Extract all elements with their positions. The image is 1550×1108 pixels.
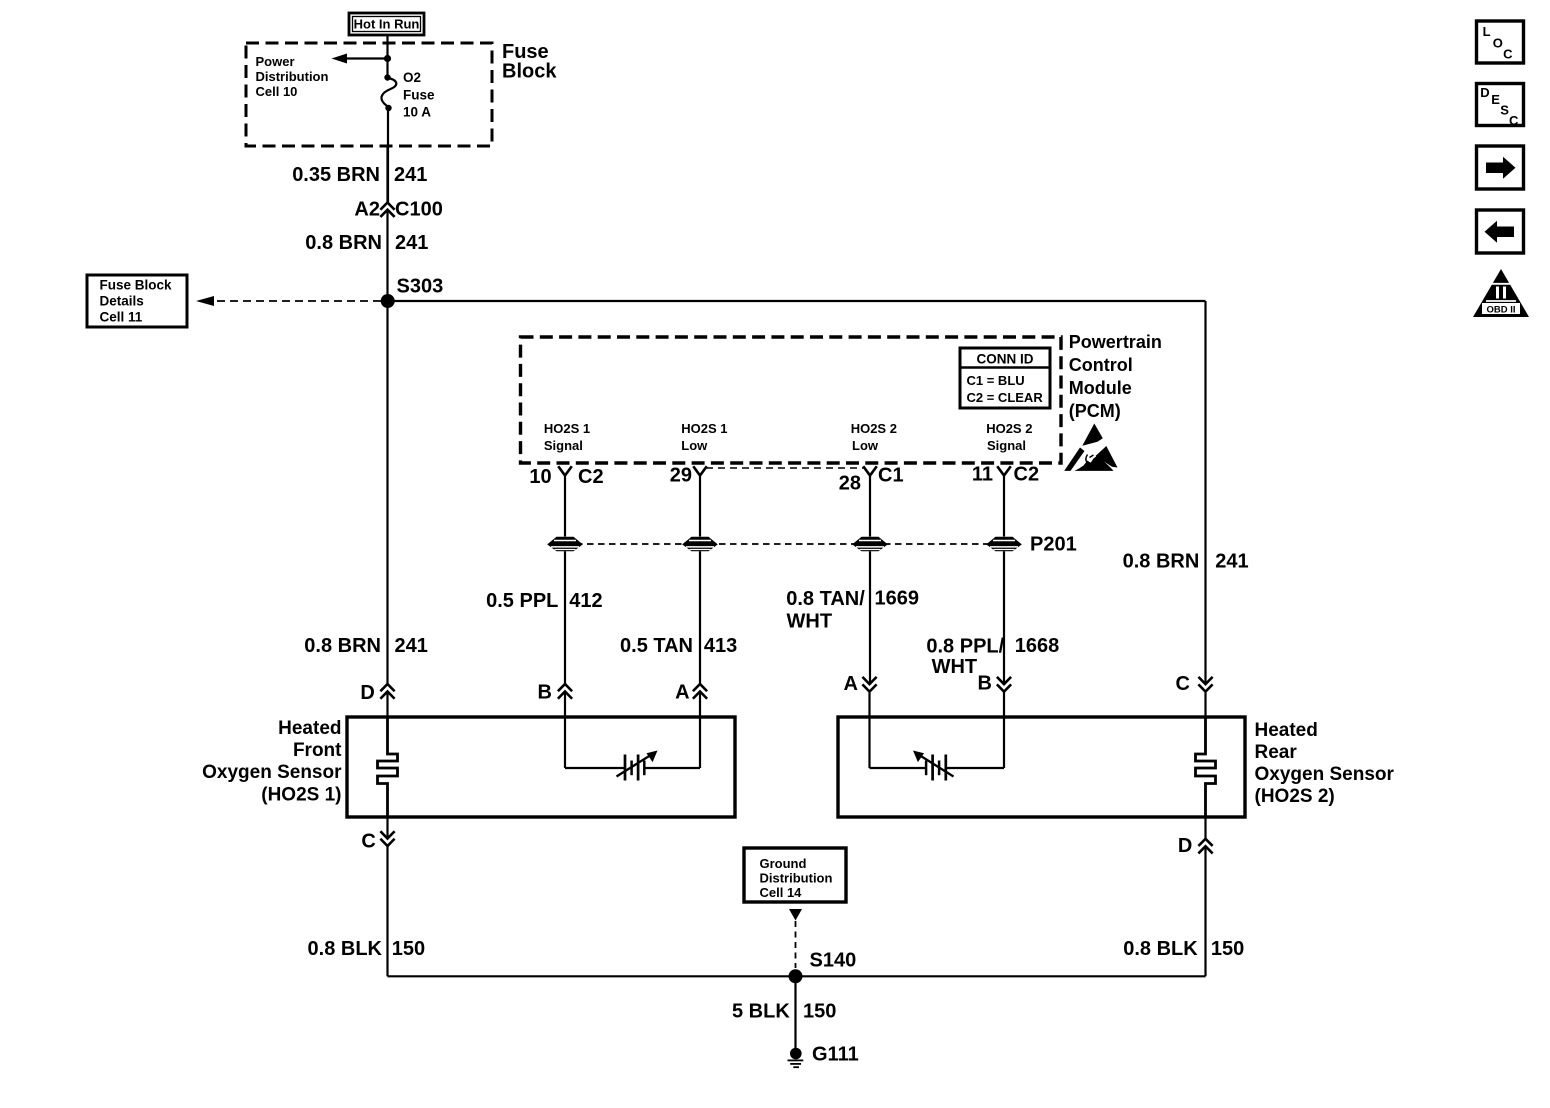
fuse value label O2 Fuse 10 A: [403, 70, 435, 120]
svg-text:Cell 14: Cell 14: [760, 885, 803, 900]
svg-text:Distribution: Distribution: [760, 871, 833, 886]
svg-text:412: 412: [569, 590, 602, 612]
Fuse Block label: [502, 41, 557, 83]
svg-text:D: D: [360, 682, 374, 704]
svg-text:0.8 BRN: 0.8 BRN: [304, 635, 381, 657]
wire P201 to pin B rear: [1003, 551, 1005, 684]
icon back arrow: [1477, 210, 1524, 253]
svg-text:C2: C2: [1014, 464, 1040, 486]
svg-text:Signal: Signal: [987, 438, 1026, 453]
svg-text:28: 28: [839, 473, 861, 495]
arrow to Power Distribution: [332, 54, 388, 64]
svg-text:L: L: [1483, 24, 1491, 39]
dashed line linking P201 connectors: [565, 543, 1004, 545]
svg-text:Oxygen Sensor: Oxygen Sensor: [202, 762, 342, 783]
wire right side down to rear sensor pin C: [1204, 301, 1206, 684]
svg-text:CONN ID: CONN ID: [977, 352, 1034, 367]
front sensor internal wires: [565, 767, 700, 769]
svg-text:Low: Low: [681, 438, 708, 453]
svg-text:Signal: Signal: [544, 438, 583, 453]
wire label 0.5 PPL 412: [486, 590, 603, 612]
svg-text:0.8 BRN: 0.8 BRN: [305, 232, 382, 254]
svg-text:C: C: [361, 831, 375, 853]
svg-text:(HO2S 2): (HO2S 2): [1255, 786, 1335, 807]
rear sensor internal wires: [870, 767, 1005, 769]
inline connector P201 (wire 1669): [852, 537, 888, 552]
pin A terminal rear (down chevrons): [843, 673, 875, 695]
wire pin 10 down to P201: [564, 476, 566, 537]
svg-text:0.8 BLK: 0.8 BLK: [308, 938, 383, 960]
svg-text:G111: G111: [812, 1044, 859, 1066]
svg-text:A: A: [675, 681, 689, 703]
wire B into front box: [564, 692, 566, 769]
svg-text:241: 241: [395, 635, 428, 657]
svg-text:150: 150: [392, 938, 425, 960]
svg-text:S303: S303: [397, 276, 444, 298]
PCM dashed box: [521, 337, 1062, 463]
svg-text:B: B: [977, 672, 991, 694]
pin D terminal rear (up chevrons): [1178, 835, 1212, 857]
fuse Q2 10A: [381, 74, 396, 111]
svg-text:Rear: Rear: [1255, 742, 1298, 763]
svg-text:Power: Power: [256, 54, 295, 69]
splice S140: [789, 950, 857, 984]
wire label 0.8 TAN/WHT 1669: [786, 588, 919, 633]
wire label 0.35 BRN 241: [292, 164, 427, 186]
svg-text:C1 = BLU: C1 = BLU: [967, 373, 1025, 388]
wire P201 to pin A front: [699, 551, 701, 684]
dashed reference arrow from Ground Distribution to S140: [789, 909, 802, 968]
heater element front (resistor): [378, 717, 398, 817]
ground G111: [788, 1044, 859, 1068]
svg-text:C: C: [1176, 673, 1190, 695]
wire label 5 BLK 150: [732, 1000, 836, 1022]
svg-text:Powertrain: Powertrain: [1069, 332, 1162, 352]
svg-text:HO2S 1: HO2S 1: [681, 421, 727, 436]
Fuse Block dashed box: [246, 43, 492, 146]
wire label 0.8 BLK 150 (left): [308, 938, 426, 960]
svg-text:0.8 BLK: 0.8 BLK: [1123, 938, 1198, 960]
svg-text:(HO2S 1): (HO2S 1): [261, 785, 341, 806]
svg-text:S: S: [1500, 103, 1509, 118]
svg-text:C1: C1: [878, 465, 904, 487]
svg-text:Control: Control: [1069, 355, 1133, 375]
connector C100 label: [354, 199, 442, 221]
svg-text:Module: Module: [1069, 378, 1132, 398]
heater element rear (resistor): [1196, 717, 1216, 817]
pin function label HO2S 2 Signal: [986, 421, 1032, 453]
pin 10 C2 terminal: [529, 466, 603, 488]
pin C terminal rear: [1176, 673, 1212, 695]
wire A into front box: [699, 692, 701, 769]
wire pin 11 down to P201: [1003, 476, 1005, 537]
wire label 0.8 BRN 241: [305, 232, 428, 254]
svg-text:413: 413: [704, 635, 737, 657]
node junction at arrow tap: [384, 55, 391, 62]
wire front box pin C down: [386, 817, 388, 839]
pin D terminal front (up chevrons): [360, 682, 393, 704]
svg-text:Block: Block: [502, 61, 557, 83]
svg-text:Heated: Heated: [278, 718, 341, 739]
svg-text:C2 = CLEAR: C2 = CLEAR: [967, 390, 1044, 405]
wire D into front box: [386, 692, 388, 718]
front oxygen sensor cell (variable): [617, 751, 658, 781]
pin function label HO2S 1 Signal: [544, 421, 590, 453]
svg-text:10: 10: [529, 466, 551, 488]
inline connector P201 (wire 413): [682, 537, 718, 552]
svg-text:10 A: 10 A: [403, 105, 431, 120]
svg-text:WHT: WHT: [787, 610, 833, 632]
svg-text:Cell 11: Cell 11: [100, 310, 143, 325]
svg-text:Fuse Block: Fuse Block: [100, 278, 173, 293]
svg-text:O: O: [1493, 36, 1503, 51]
svg-text:5 BLK: 5 BLK: [732, 1000, 790, 1022]
dashed link pin 29 to pin 28: [706, 467, 864, 469]
Powertrain Control Module (PCM) label: [1069, 332, 1162, 421]
pin A terminal front: [675, 681, 706, 703]
wire pin 28 down to P201: [869, 476, 871, 537]
wire label 0.8 PPL/WHT 1668: [926, 635, 1059, 678]
svg-text:(PCM): (PCM): [1069, 401, 1121, 421]
svg-text:Front: Front: [293, 740, 342, 761]
wire C100 to S303: [386, 210, 388, 301]
icon DESC: [1477, 84, 1524, 129]
svg-text:Cell 10: Cell 10: [256, 84, 298, 99]
wire pin D to ground bus: [1204, 846, 1206, 976]
svg-text:B: B: [537, 681, 551, 703]
wire C into rear box: [1204, 692, 1206, 717]
svg-text:HO2S 2: HO2S 2: [851, 421, 897, 436]
svg-text:241: 241: [395, 232, 428, 254]
wire label 0.8 BRN 241 (right): [1123, 551, 1249, 573]
pin B terminal front: [537, 681, 571, 703]
svg-text:1668: 1668: [1015, 635, 1060, 657]
svg-text:P201: P201: [1030, 534, 1077, 556]
rear oxygen sensor cell (variable): [913, 751, 954, 781]
svg-text:HO2S 1: HO2S 1: [544, 421, 590, 436]
svg-text:C: C: [1503, 46, 1513, 61]
wire label 0.8 BLK 150 (right): [1123, 938, 1244, 960]
ground bus wire: [388, 975, 1206, 977]
wire rear box pin D down: [1204, 817, 1206, 840]
svg-text:HO2S 2: HO2S 2: [986, 421, 1032, 436]
Heated Front Oxygen Sensor label: [202, 718, 342, 806]
svg-text:D: D: [1480, 85, 1489, 100]
svg-text:E: E: [1491, 92, 1500, 107]
wire A into rear box: [868, 692, 870, 768]
svg-text:Ground: Ground: [760, 856, 807, 871]
svg-text:Oxygen Sensor: Oxygen Sensor: [1255, 764, 1395, 785]
svg-text:Distribution: Distribution: [256, 69, 329, 84]
svg-text:Hot In Run: Hot In Run: [354, 17, 420, 32]
icon OBD II: [1473, 269, 1529, 317]
wire P201 to pin A rear: [869, 551, 871, 684]
Heated Front Oxygen Sensor box: [347, 717, 735, 817]
pin function label HO2S 2 Low: [851, 421, 897, 453]
svg-text:C: C: [1509, 113, 1519, 128]
svg-text:150: 150: [1211, 938, 1244, 960]
wire P201 to pin B front: [564, 551, 566, 684]
svg-text:0.8 PPL/: 0.8 PPL/: [926, 636, 1004, 658]
Hot In Run box: [349, 13, 424, 35]
svg-text:D: D: [1178, 835, 1192, 857]
pin function label HO2S 1 Low: [681, 421, 727, 453]
svg-text:0.35 BRN: 0.35 BRN: [292, 164, 380, 186]
svg-text:1669: 1669: [875, 588, 920, 610]
svg-text:O2: O2: [403, 70, 421, 85]
svg-text:C2: C2: [578, 466, 604, 488]
wire label 0.5 TAN 413: [620, 635, 737, 657]
svg-text:0.8 TAN/: 0.8 TAN/: [786, 588, 865, 610]
svg-text:A2: A2: [354, 199, 380, 221]
wire pin 29 down to P201: [699, 476, 701, 537]
wire S140 to G111: [794, 976, 796, 1048]
Ground Distribution Cell 14 box: [744, 848, 846, 902]
svg-text:OBD II: OBD II: [1486, 305, 1515, 316]
Heated Rear Oxygen Sensor label: [1255, 720, 1395, 807]
inline connector P201 (wire 1668): [986, 537, 1022, 552]
Fuse Block Details Cell 11 box: [87, 275, 187, 327]
svg-text:241: 241: [394, 164, 427, 186]
ESD sensitive device symbol: [1064, 424, 1117, 471]
inline connector P201 (wire 412): [547, 537, 583, 552]
svg-text:150: 150: [803, 1000, 836, 1022]
svg-text:Low: Low: [852, 438, 879, 453]
svg-text:241: 241: [1215, 551, 1248, 573]
svg-text:29: 29: [670, 465, 692, 487]
wire label 0.8 BRN 241 (left mid): [304, 635, 428, 657]
svg-text:Heated: Heated: [1255, 720, 1318, 741]
dashed reference arrow to Fuse Block Details: [196, 296, 381, 306]
svg-text:S140: S140: [810, 950, 857, 972]
splice S303: [381, 276, 444, 309]
pin 29 terminal: [670, 465, 706, 487]
svg-text:11: 11: [972, 464, 993, 486]
svg-text:0.5 PPL: 0.5 PPL: [486, 590, 558, 612]
pin B terminal rear: [977, 672, 1010, 694]
CONN ID table: [960, 348, 1050, 408]
svg-text:Fuse: Fuse: [403, 88, 435, 103]
pin C terminal front (down chevrons): [361, 831, 393, 853]
svg-text:C100: C100: [395, 199, 443, 221]
wire fuse to C100: [386, 108, 389, 203]
icon LOC: [1477, 21, 1524, 63]
svg-text:WHT: WHT: [932, 656, 978, 678]
wire B into rear box: [1003, 692, 1005, 768]
pin 11 C2 terminal: [972, 464, 1039, 486]
wire S303 to right side: [388, 300, 1206, 302]
wire S303 down left side: [386, 301, 388, 684]
icon forward arrow: [1477, 146, 1524, 189]
Power Distribution Cell 10 label: [256, 54, 329, 99]
Heated Rear Oxygen Sensor box: [838, 717, 1245, 817]
svg-text:A: A: [843, 673, 857, 695]
svg-text:Details: Details: [100, 294, 144, 309]
wire from Hot In Run into fuse block: [386, 35, 388, 77]
wire pin C to ground bus: [386, 846, 388, 976]
svg-text:0.5 TAN: 0.5 TAN: [620, 635, 693, 657]
connector C100 symbol (A2): [381, 203, 393, 217]
svg-text:0.8 BRN: 0.8 BRN: [1123, 551, 1200, 573]
pin 28 C1 terminal: [839, 465, 904, 495]
